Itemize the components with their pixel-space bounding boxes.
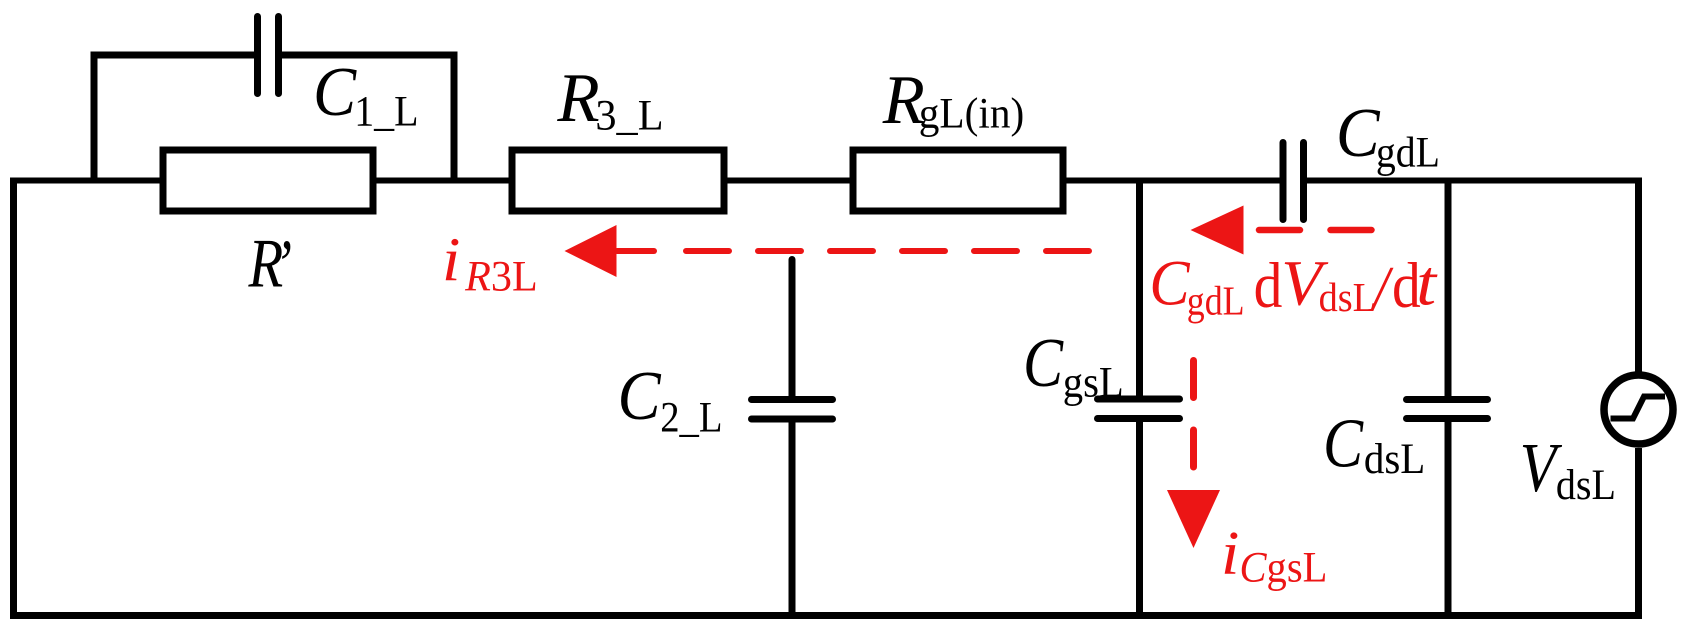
svg-text:i: i [1221,517,1239,587]
current arrow CgdL-dVdsL/dt head [1191,206,1244,255]
wire: C2_L branch lower segment [789,420,796,616]
svg-text:dsL: dsL [1556,461,1616,509]
source VdsL circle [1604,375,1673,444]
source VdsL ramp symbol [1611,397,1666,419]
label C1_L [313,53,419,135]
resistor RgL(in) [853,150,1063,211]
svg-text:C: C [1336,94,1380,171]
label i_R3L [442,224,538,301]
svg-text:gdL: gdL [1376,128,1440,176]
svg-text:2_L: 2_L [660,394,722,441]
svg-text:C: C [1023,325,1064,402]
svg-text:t: t [1416,246,1438,318]
wire: left edge vertical [10,178,17,616]
svg-text:R: R [556,59,599,136]
svg-text:3_L: 3_L [595,92,663,139]
current arrow i_CgsL dashed line [1190,361,1197,468]
resistor R' [163,150,373,211]
wire: right edge lower segment [1635,448,1642,616]
wire: main wire, RgL(in) to CgdL left plate [1063,178,1280,184]
label C2_L [618,357,723,441]
wire: right edge upper segment [1635,178,1642,374]
current arrow i_R3L head [565,225,617,277]
label i_CgsL [1221,517,1327,591]
label CgsL [1023,325,1124,407]
current arrow i_R3L dashed line [686,248,1089,254]
label CdsL [1323,405,1425,483]
svg-text:C: C [1149,246,1190,319]
wire: C1_L parallel loop [94,55,454,181]
wire: gate node vertical upper segment [1136,181,1143,400]
capacitor CdsL plates [1407,400,1488,419]
capacitor CgsL plates [1098,399,1180,419]
svg-text:C: C [1323,405,1364,482]
svg-text:dsL: dsL [1319,275,1376,320]
wire: drain node vertical upper segment [1445,181,1452,400]
svg-text:gL(in): gL(in) [919,90,1024,138]
label VdsL [1520,430,1616,508]
resistor R3_L [512,150,724,211]
wire: gate node vertical lower segment [1136,419,1143,616]
current arrow CgdL-dVdsL/dt dashed line [1259,227,1372,234]
label R3_L [556,59,663,139]
svg-text:gsL: gsL [1063,359,1124,406]
label RgL(in) [882,61,1024,139]
svg-text:d: d [1254,250,1283,322]
wire: C2_L branch upper segment [789,260,796,398]
label CgdL [1336,94,1440,176]
svg-text:C: C [313,53,357,131]
wire: main wire, CgdL right plate to right edge [1307,178,1643,184]
svg-text:C: C [618,357,662,435]
capacitor C2_L plates [752,400,833,420]
wire: main wire, R3_L to RgL(in) [724,178,853,184]
wire: main gate wire, left corner to R' [10,178,163,184]
wire: drain node vertical lower segment [1445,419,1452,616]
wire: bottom rail [10,612,1642,619]
svg-text:’: ’ [274,227,292,304]
svg-text:gdL: gdL [1187,279,1245,324]
label R' [248,224,292,303]
current arrow i_R3L shaft [617,248,654,254]
svg-text:i: i [442,224,460,294]
svg-text:dsL: dsL [1364,436,1425,483]
current arrow i_CgsL head [1167,490,1220,548]
svg-text:1_L: 1_L [354,87,418,135]
wire: main wire, R' to R3_L [373,178,512,184]
capacitor C1_L plates [258,17,279,94]
svg-text:R3L: R3L [464,253,538,300]
svg-text:/: / [1370,254,1394,325]
label CgdL dVdsL/dt formula [1149,246,1438,325]
svg-text:CgsL: CgsL [1240,544,1328,591]
capacitor CgdL plates [1283,143,1304,220]
